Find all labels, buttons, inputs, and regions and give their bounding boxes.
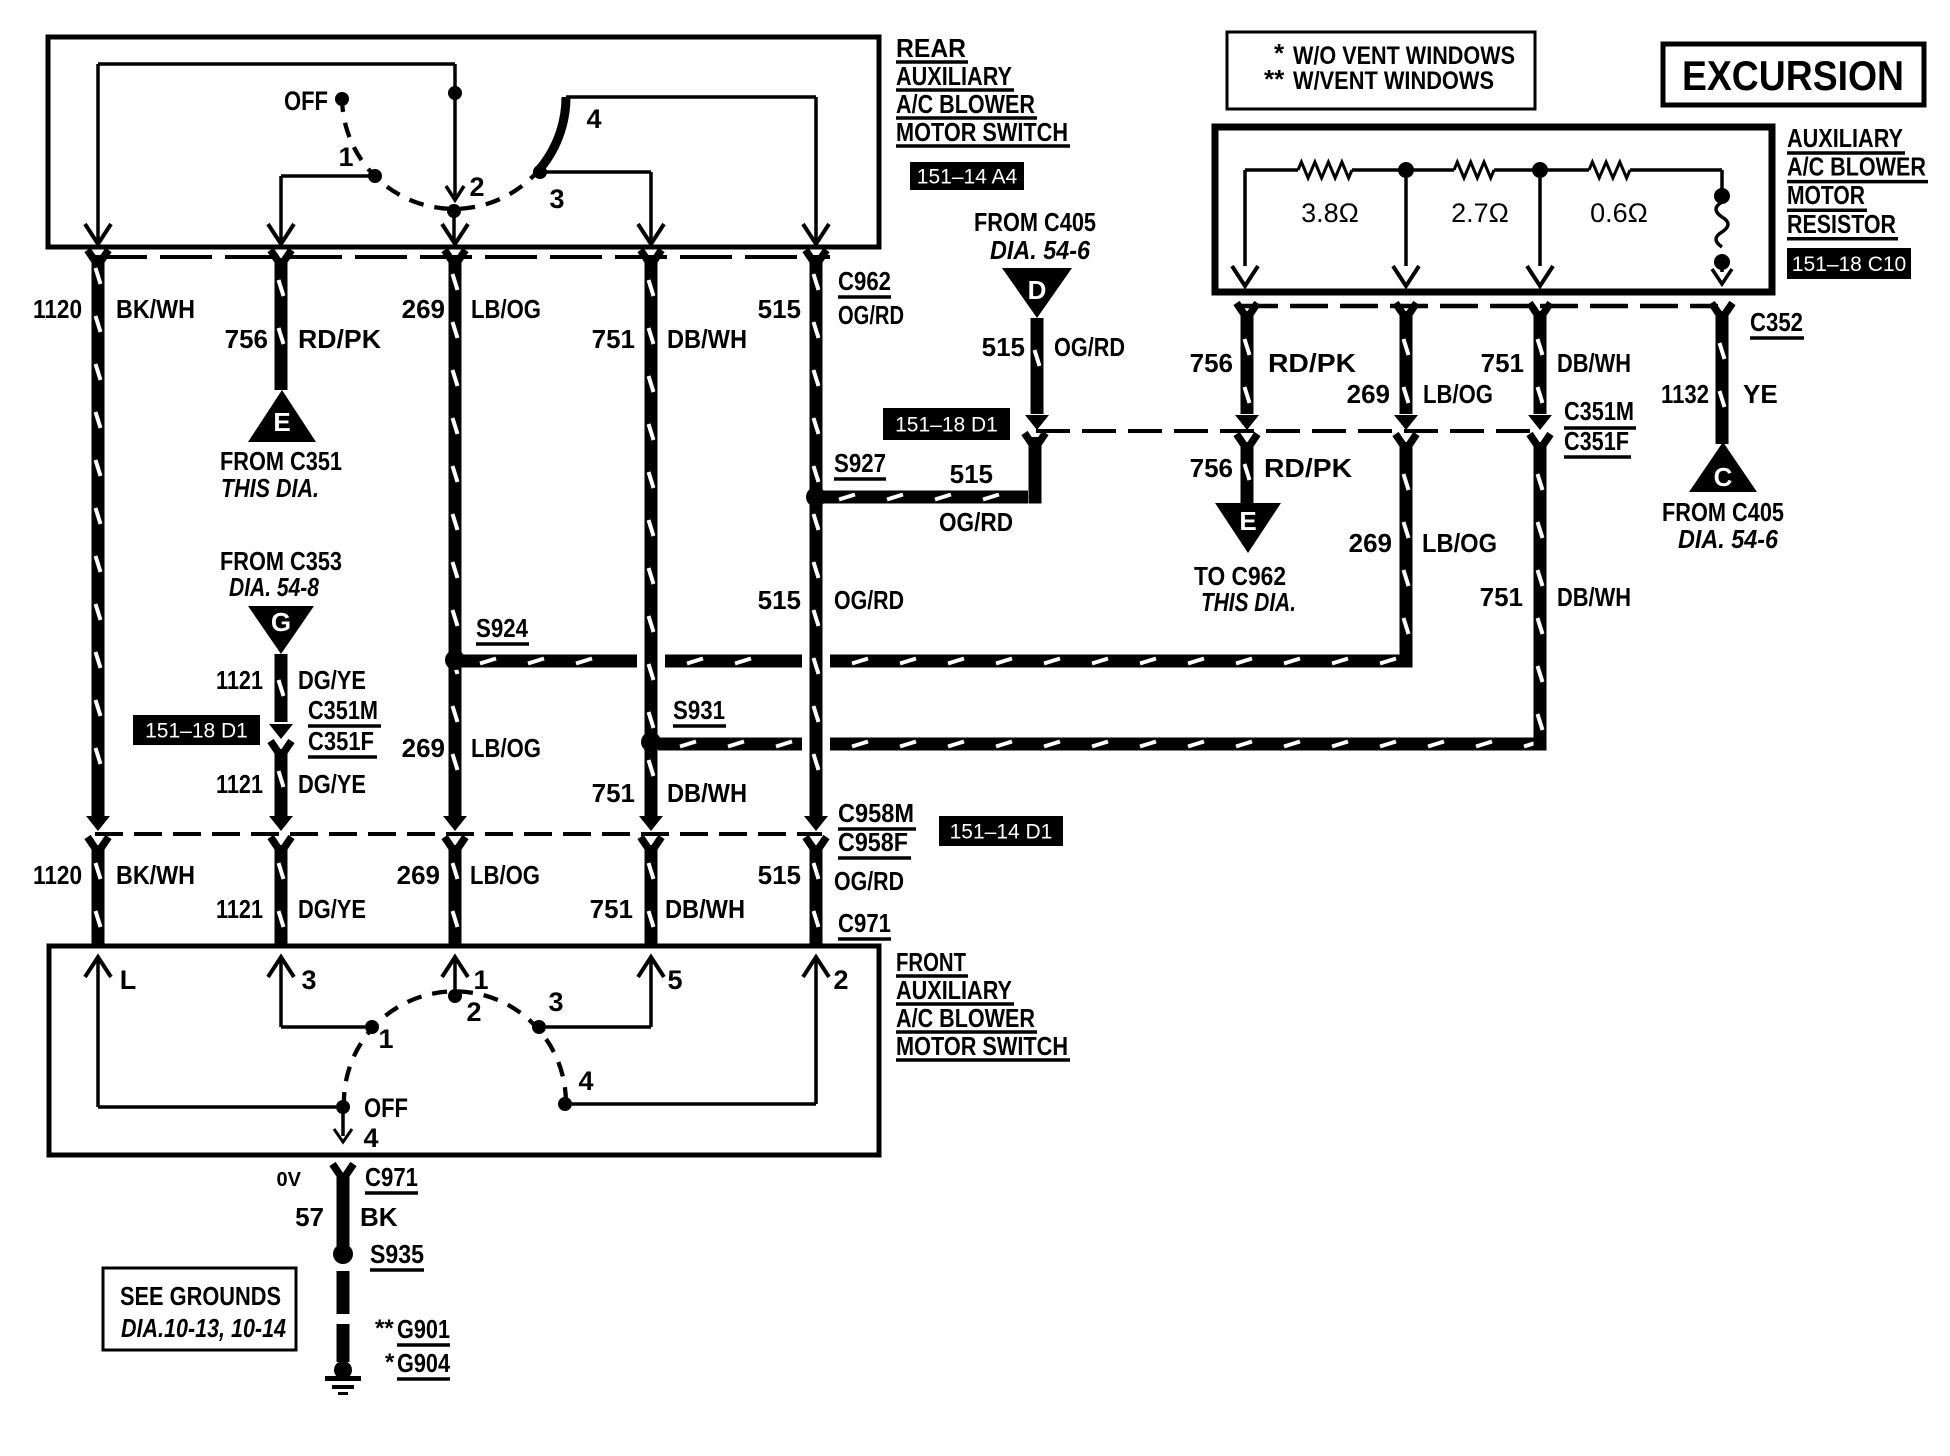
svg-text:1: 1 xyxy=(473,965,488,995)
svg-text:4: 4 xyxy=(578,1066,593,1096)
svg-text:4: 4 xyxy=(586,104,601,134)
svg-text:THIS DIA.: THIS DIA. xyxy=(221,473,319,503)
svg-text:751: 751 xyxy=(592,778,635,808)
svg-text:751: 751 xyxy=(592,324,635,354)
svg-text:3: 3 xyxy=(548,987,563,1017)
svg-text:AUXILIARY: AUXILIARY xyxy=(896,975,1012,1005)
svg-text:C958M: C958M xyxy=(838,798,914,828)
svg-text:3: 3 xyxy=(301,965,316,995)
svg-text:FROM C405: FROM C405 xyxy=(974,207,1096,237)
svg-text:BK/WH: BK/WH xyxy=(116,294,195,324)
svg-text:151–18 D1: 151–18 D1 xyxy=(145,720,248,743)
svg-text:RD/PK: RD/PK xyxy=(1268,348,1356,378)
svg-text:756: 756 xyxy=(1190,348,1233,378)
svg-text:DB/WH: DB/WH xyxy=(1557,582,1631,612)
svg-text:RD/PK: RD/PK xyxy=(1264,453,1352,483)
svg-text:FROM C351: FROM C351 xyxy=(220,446,342,476)
svg-text:DG/YE: DG/YE xyxy=(298,894,366,924)
svg-text:LB/OG: LB/OG xyxy=(471,733,541,763)
svg-text:MOTOR SWITCH: MOTOR SWITCH xyxy=(896,1031,1068,1061)
svg-text:0V: 0V xyxy=(277,1169,302,1191)
svg-text:C351F: C351F xyxy=(1564,426,1629,456)
svg-text:YE: YE xyxy=(1743,379,1778,409)
svg-text:751: 751 xyxy=(1481,348,1524,378)
svg-text:W/O VENT WINDOWS: W/O VENT WINDOWS xyxy=(1293,42,1515,70)
svg-text:DB/WH: DB/WH xyxy=(1557,348,1631,378)
svg-text:1121: 1121 xyxy=(216,665,263,695)
svg-text:RESISTOR: RESISTOR xyxy=(1787,209,1896,239)
svg-text:C352: C352 xyxy=(1750,307,1803,337)
svg-text:756: 756 xyxy=(225,324,268,354)
svg-text:BK/WH: BK/WH xyxy=(116,860,195,890)
svg-text:S927: S927 xyxy=(834,448,886,478)
svg-text:LB/OG: LB/OG xyxy=(1422,528,1497,558)
svg-text:2: 2 xyxy=(466,997,481,1027)
svg-text:*: * xyxy=(385,1349,395,1376)
svg-text:DB/WH: DB/WH xyxy=(667,324,747,354)
svg-text:515: 515 xyxy=(758,585,801,615)
svg-text:5: 5 xyxy=(667,965,682,995)
svg-text:1: 1 xyxy=(378,1024,393,1054)
svg-text:DIA. 54-6: DIA. 54-6 xyxy=(1678,524,1778,554)
svg-text:C351M: C351M xyxy=(1564,396,1634,426)
svg-text:4: 4 xyxy=(363,1123,378,1153)
svg-text:269: 269 xyxy=(397,860,440,890)
svg-text:2.7Ω: 2.7Ω xyxy=(1451,198,1509,228)
svg-text:2: 2 xyxy=(833,965,848,995)
svg-text:DG/YE: DG/YE xyxy=(298,665,366,695)
svg-text:**: ** xyxy=(375,1315,394,1342)
svg-text:REAR: REAR xyxy=(896,33,966,63)
svg-text:151–18 C10: 151–18 C10 xyxy=(1792,253,1906,276)
svg-text:OG/RD: OG/RD xyxy=(838,300,904,330)
svg-text:MOTOR: MOTOR xyxy=(1787,180,1865,210)
svg-text:DIA. 54-6: DIA. 54-6 xyxy=(990,235,1090,265)
svg-text:1120: 1120 xyxy=(33,860,82,890)
svg-text:E: E xyxy=(273,407,290,437)
svg-text:C958F: C958F xyxy=(838,827,908,857)
svg-text:A/C BLOWER: A/C BLOWER xyxy=(896,89,1035,119)
svg-text:DB/WH: DB/WH xyxy=(667,778,747,808)
svg-text:2: 2 xyxy=(469,172,484,202)
svg-text:57: 57 xyxy=(295,1202,324,1232)
svg-text:1121: 1121 xyxy=(216,894,263,924)
svg-text:C: C xyxy=(1714,462,1733,492)
svg-text:THIS DIA.: THIS DIA. xyxy=(1201,587,1296,617)
svg-text:756: 756 xyxy=(1190,453,1233,483)
svg-text:FROM C405: FROM C405 xyxy=(1662,497,1784,527)
svg-text:OG/RD: OG/RD xyxy=(834,585,904,615)
svg-text:AUXILIARY: AUXILIARY xyxy=(1787,123,1903,153)
svg-text:EXCURSION: EXCURSION xyxy=(1682,52,1904,99)
svg-text:OFF: OFF xyxy=(284,86,328,116)
svg-text:0.6Ω: 0.6Ω xyxy=(1590,198,1648,228)
svg-text:A/C BLOWER: A/C BLOWER xyxy=(1787,152,1926,182)
svg-text:1121: 1121 xyxy=(216,769,263,799)
svg-text:LB/OG: LB/OG xyxy=(470,860,540,890)
svg-text:FRONT: FRONT xyxy=(896,947,966,977)
svg-text:AUXILIARY: AUXILIARY xyxy=(896,61,1012,91)
svg-text:C962: C962 xyxy=(838,266,891,296)
svg-text:W/VENT WINDOWS: W/VENT WINDOWS xyxy=(1293,67,1494,95)
svg-text:OG/RD: OG/RD xyxy=(939,507,1013,537)
svg-text:LB/OG: LB/OG xyxy=(471,294,541,324)
svg-text:OFF: OFF xyxy=(364,1093,408,1123)
svg-text:G: G xyxy=(271,607,291,637)
svg-text:DB/WH: DB/WH xyxy=(665,894,745,924)
svg-text:751: 751 xyxy=(1480,582,1523,612)
svg-text:OG/RD: OG/RD xyxy=(834,866,904,896)
svg-text:G904: G904 xyxy=(397,1348,450,1378)
svg-text:269: 269 xyxy=(1347,379,1390,409)
svg-text:SEE GROUNDS: SEE GROUNDS xyxy=(120,1281,281,1311)
svg-text:RD/PK: RD/PK xyxy=(298,324,381,354)
svg-text:3.8Ω: 3.8Ω xyxy=(1301,198,1359,228)
svg-text:1: 1 xyxy=(338,142,353,172)
svg-text:269: 269 xyxy=(402,733,445,763)
svg-text:269: 269 xyxy=(402,294,445,324)
svg-text:515: 515 xyxy=(950,459,993,489)
svg-text:BK: BK xyxy=(360,1202,398,1232)
svg-text:DIA.10-13, 10-14: DIA.10-13, 10-14 xyxy=(121,1313,286,1343)
svg-text:D: D xyxy=(1028,275,1047,305)
svg-text:A/C BLOWER: A/C BLOWER xyxy=(896,1003,1035,1033)
svg-text:151–14 D1: 151–14 D1 xyxy=(950,821,1053,844)
svg-text:269: 269 xyxy=(1349,528,1392,558)
svg-text:151–14 A4: 151–14 A4 xyxy=(917,166,1018,189)
svg-text:**: ** xyxy=(1264,64,1285,94)
svg-text:515: 515 xyxy=(758,860,801,890)
svg-text:S935: S935 xyxy=(370,1239,424,1269)
svg-text:L: L xyxy=(120,965,137,995)
svg-text:1120: 1120 xyxy=(33,294,82,324)
svg-text:S924: S924 xyxy=(476,613,528,643)
svg-text:OG/RD: OG/RD xyxy=(1054,332,1125,362)
svg-text:DG/YE: DG/YE xyxy=(298,769,366,799)
svg-text:DIA. 54-8: DIA. 54-8 xyxy=(229,572,319,602)
svg-text:751: 751 xyxy=(590,894,633,924)
svg-text:C351F: C351F xyxy=(308,726,374,756)
svg-text:515: 515 xyxy=(982,332,1025,362)
svg-text:MOTOR SWITCH: MOTOR SWITCH xyxy=(896,117,1068,147)
svg-text:S931: S931 xyxy=(673,695,725,725)
svg-text:C971: C971 xyxy=(365,1162,418,1192)
svg-text:C351M: C351M xyxy=(308,695,378,725)
svg-text:1132: 1132 xyxy=(1661,379,1709,409)
svg-text:515: 515 xyxy=(758,294,801,324)
svg-text:G901: G901 xyxy=(397,1314,450,1344)
svg-text:C971: C971 xyxy=(838,908,891,938)
svg-text:3: 3 xyxy=(549,184,564,214)
svg-text:151–18 D1: 151–18 D1 xyxy=(895,414,998,437)
svg-text:E: E xyxy=(1239,506,1256,536)
svg-text:LB/OG: LB/OG xyxy=(1423,379,1493,409)
